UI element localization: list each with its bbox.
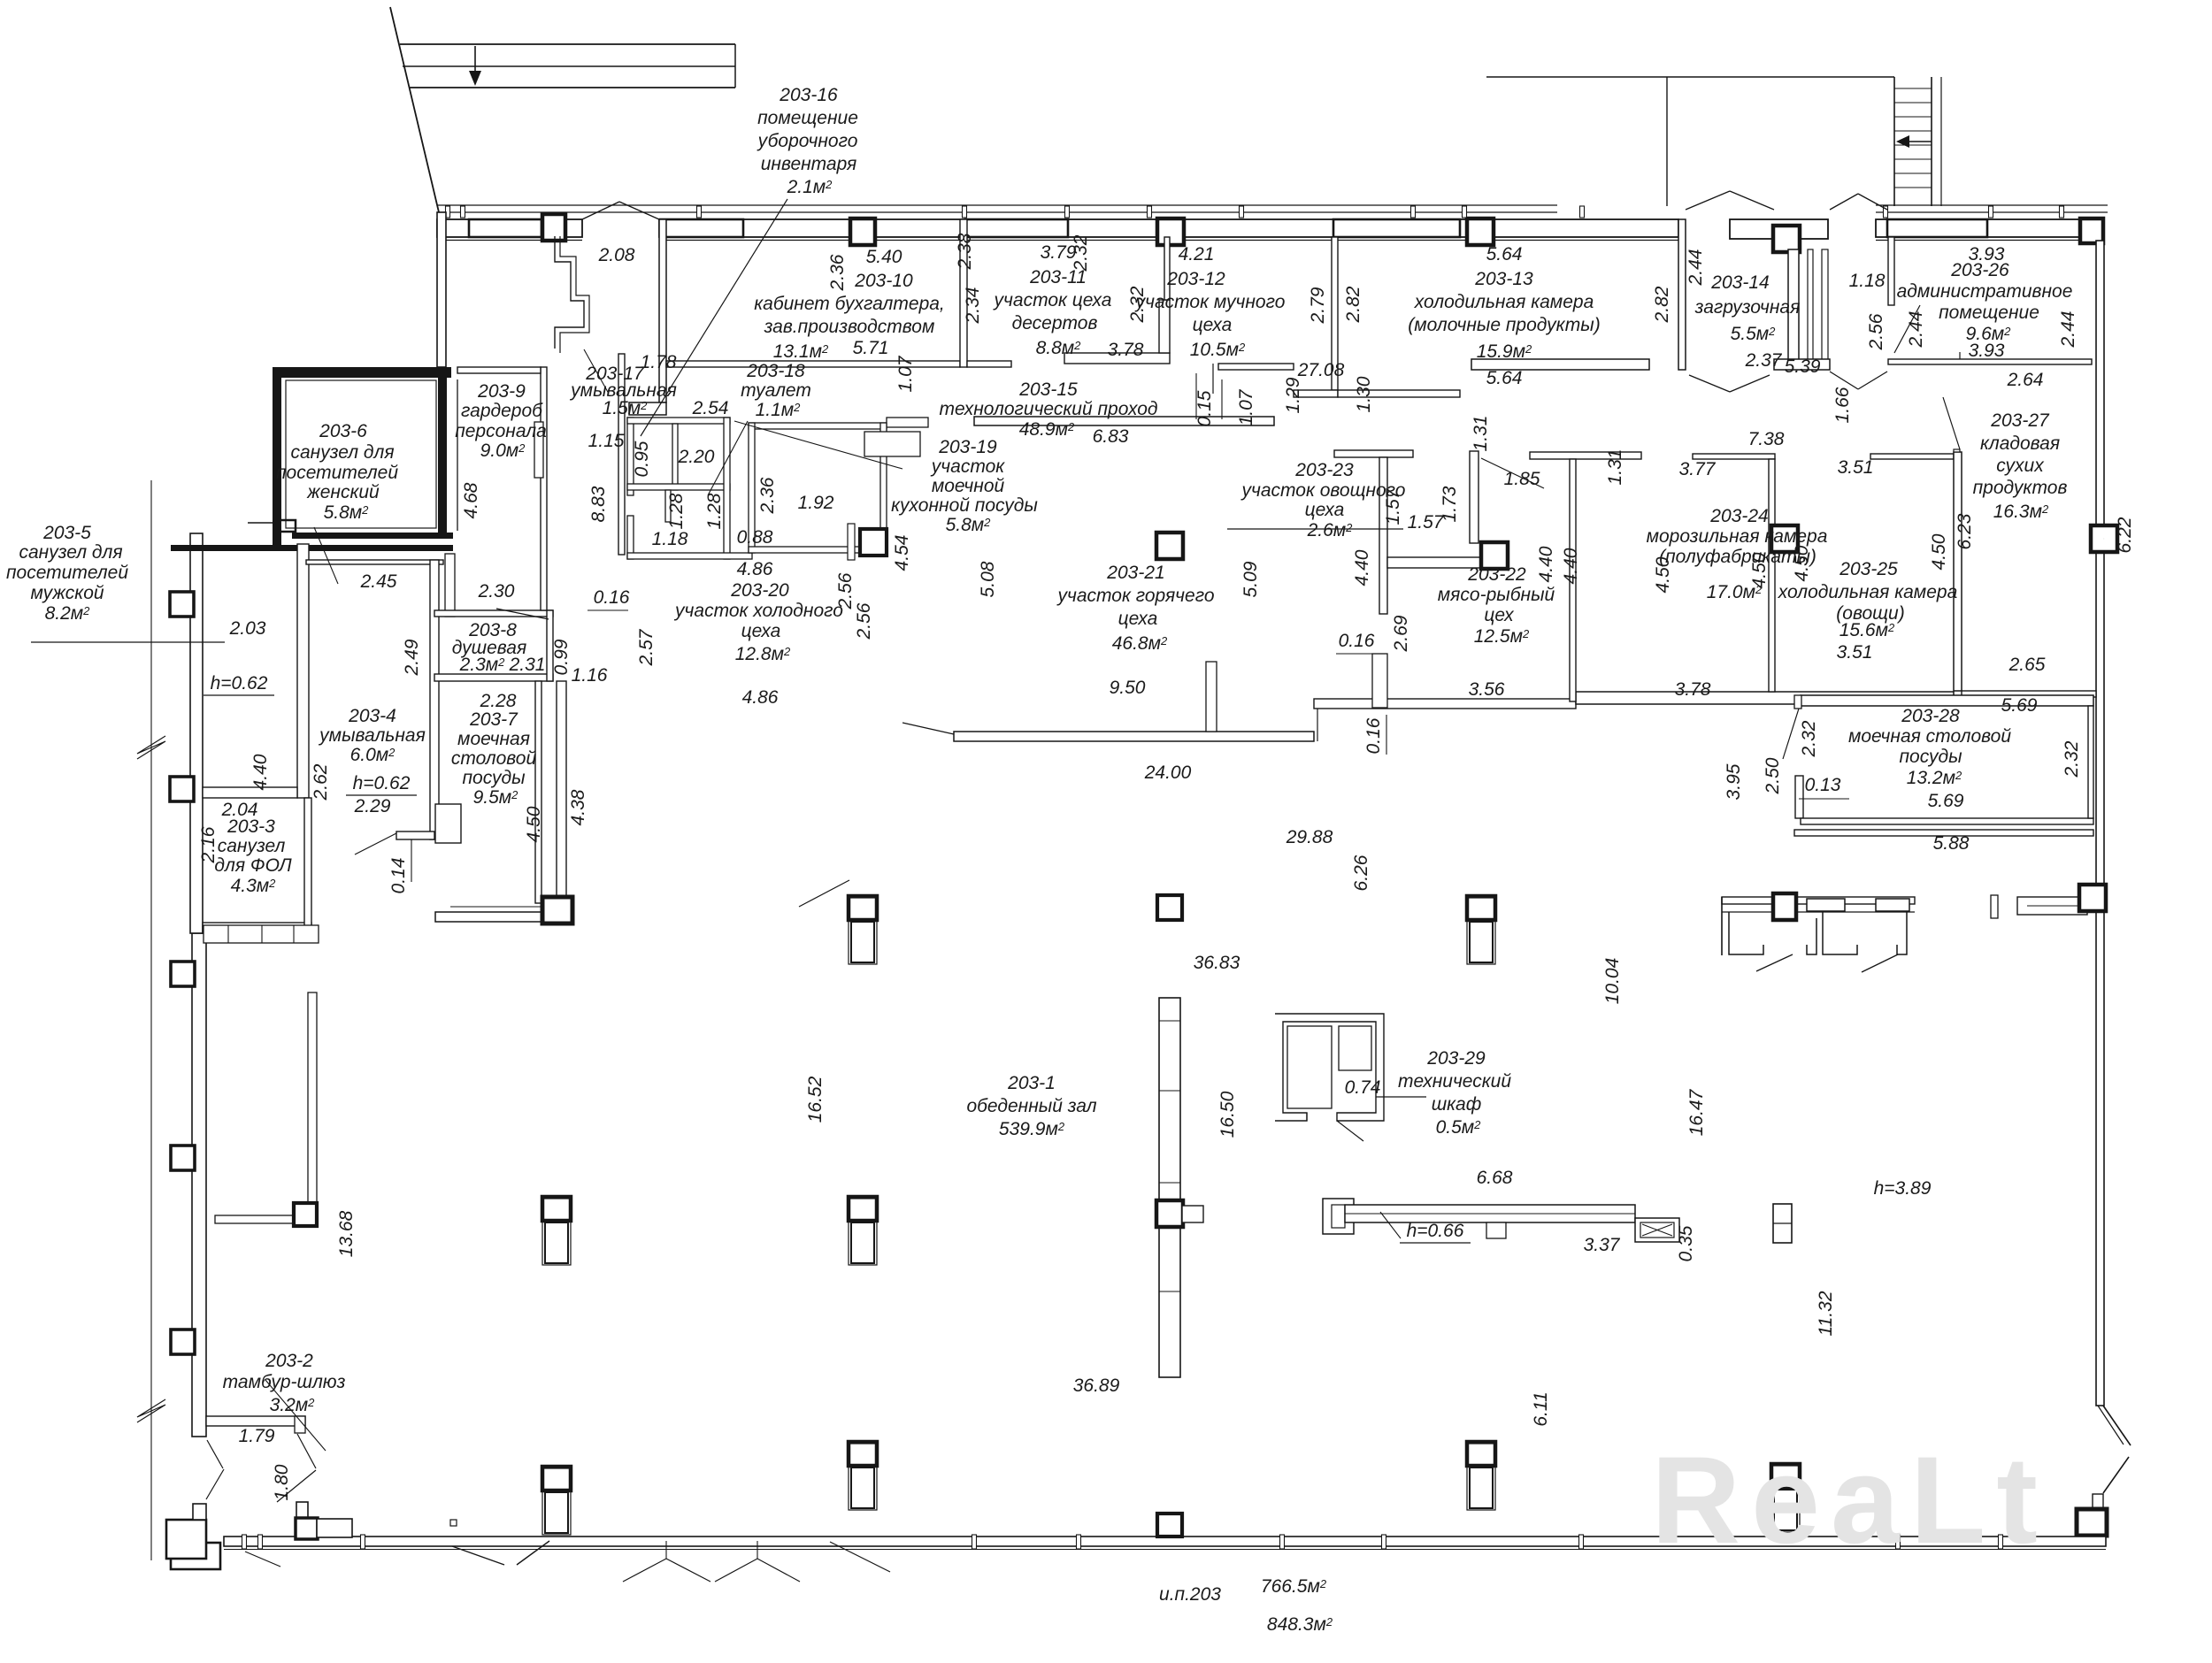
svg-text:3.51: 3.51	[1837, 642, 1873, 663]
svg-text:1.66: 1.66	[1832, 387, 1853, 423]
window mullion tick	[1884, 206, 1888, 218]
column central screen	[1156, 1200, 1183, 1227]
svg-text:0.15: 0.15	[1194, 390, 1215, 426]
window mullion tick	[1148, 206, 1152, 218]
notch 203-26	[1959, 352, 1961, 359]
svg-text:обеденный зал: обеденный зал	[966, 1096, 1096, 1116]
svg-text:2.38: 2.38	[955, 233, 975, 270]
svg-text:16.50: 16.50	[1217, 1091, 1238, 1138]
svg-text:санузел для: санузел для	[19, 542, 122, 563]
window mullion tick	[1065, 206, 1070, 218]
door swing 203-26	[1894, 305, 1920, 353]
svg-text:7.38: 7.38	[1748, 429, 1785, 449]
203-28 right wall	[2088, 706, 2093, 818]
cluster bottom wall	[627, 553, 752, 559]
203-6 bottom thick wall	[292, 533, 453, 539]
svg-text:16.3м2: 16.3м2	[1993, 502, 2049, 522]
svg-text:тамбур-шлюз: тамбур-шлюз	[223, 1372, 346, 1392]
svg-text:10.5м2: 10.5м2	[1190, 340, 1246, 360]
svg-text:2.37: 2.37	[1745, 350, 1783, 371]
svg-text:2.44: 2.44	[1686, 249, 1706, 287]
203-19 bottom wall	[749, 547, 887, 553]
svg-text:посуды: посуды	[1899, 747, 1962, 767]
door swing 203-28	[1783, 709, 1799, 759]
svg-text:мужской: мужской	[30, 583, 104, 603]
svg-text:5.69: 5.69	[1928, 791, 1964, 811]
svg-text:2.32: 2.32	[2062, 740, 2082, 778]
svg-text:2.30: 2.30	[478, 581, 515, 602]
svg-text:загрузочная: загрузочная	[1694, 297, 1801, 318]
left exterior wall lower	[192, 933, 206, 1437]
window W1b	[660, 219, 743, 237]
svg-text:2.82: 2.82	[1652, 286, 1672, 323]
bay shaft wall b	[1822, 249, 1828, 364]
svg-text:0.16: 0.16	[594, 587, 630, 608]
inner line hall NW	[450, 906, 544, 908]
svg-text:6.83: 6.83	[1093, 426, 1129, 447]
stair tread	[1894, 144, 1932, 146]
svg-text:0.16: 0.16	[1363, 717, 1384, 754]
svg-text:0.14: 0.14	[388, 858, 409, 894]
svg-text:2.08: 2.08	[598, 245, 635, 265]
svg-text:2.54: 2.54	[692, 398, 729, 418]
buffet left edge	[1721, 897, 1723, 955]
svg-text:моечная столовой: моечная столовой	[1848, 726, 2011, 747]
svg-text:203-26: 203-26	[1950, 260, 2009, 280]
svg-text:3.51: 3.51	[1838, 457, 1874, 478]
svg-text:0.95: 0.95	[632, 441, 652, 477]
svg-text:h=0.66: h=0.66	[1407, 1221, 1464, 1241]
svg-text:h=3.89: h=3.89	[1874, 1178, 1932, 1199]
column hall NW	[542, 897, 572, 923]
svg-text:203-6: 203-6	[319, 421, 367, 441]
leader 203-18	[708, 421, 748, 495]
left edge wall x310	[273, 378, 281, 546]
203-11 bottom wall (3.78)	[1064, 353, 1170, 364]
buffet top band	[1722, 897, 1915, 904]
svg-text:203-1: 203-1	[1007, 1073, 1056, 1093]
svg-text:2.56: 2.56	[854, 602, 874, 640]
column 203-22 NW	[1481, 542, 1508, 569]
outer line above loading bay	[1486, 76, 1894, 78]
window mullion tick	[1463, 206, 1467, 218]
svg-text:1.57: 1.57	[1383, 487, 1403, 525]
svg-text:4.50: 4.50	[1929, 533, 1949, 570]
chamfer corner bottom-right	[2103, 1406, 2131, 1445]
svg-text:участок: участок	[930, 456, 1005, 477]
svg-text:2.45: 2.45	[360, 571, 397, 592]
203-8 right wall	[547, 610, 553, 681]
door assembly hall r3c0	[542, 1467, 571, 1535]
bottom band tick	[1579, 1535, 1584, 1549]
svg-text:16.52: 16.52	[805, 1076, 826, 1123]
bottom band tick	[972, 1535, 977, 1549]
tiny marker	[450, 1520, 457, 1526]
svg-text:203-15: 203-15	[1018, 379, 1078, 400]
bottom band tick	[258, 1535, 263, 1549]
svg-text:3.95: 3.95	[1724, 763, 1744, 800]
203-11 bottom riser	[1159, 300, 1170, 353]
svg-text:9.50: 9.50	[1110, 678, 1146, 698]
svg-text:4.40: 4.40	[1536, 546, 1556, 582]
bay bottom wall	[1774, 359, 1830, 370]
balustrade vertical h=0.92	[308, 992, 317, 1215]
svg-text:2.31: 2.31	[509, 655, 546, 675]
window W4	[1887, 219, 1987, 237]
svg-text:шкаф: шкаф	[1432, 1094, 1482, 1115]
svg-text:1.28: 1.28	[666, 493, 687, 529]
column 203-19 SE	[860, 529, 887, 556]
buffet band inner line	[1722, 911, 1915, 913]
wall 203-22|24	[1570, 459, 1576, 701]
svg-text:морозильная камера: морозильная камера	[1647, 526, 1828, 547]
column top E (bay)	[1773, 226, 1800, 252]
svg-text:203-14: 203-14	[1710, 272, 1769, 293]
svg-text:продуктов: продуктов	[1973, 478, 2068, 498]
door leaf 203-4	[355, 833, 396, 854]
203-9 right wall	[541, 367, 547, 610]
door assembly hall r2c1	[849, 1197, 877, 1265]
annex top wall line	[171, 545, 453, 551]
chamfer foot rect	[2093, 1494, 2103, 1509]
hall NW corner wall	[435, 912, 568, 922]
buffet window box a	[1807, 899, 1845, 911]
leader 1.85	[1481, 458, 1544, 488]
203-10 bottom wall	[666, 361, 960, 367]
wall y406 under bay left	[1471, 359, 1649, 370]
203-10 left wall foot	[629, 402, 666, 415]
203-19 right wall	[880, 423, 887, 553]
svg-text:2.64: 2.64	[2007, 370, 2044, 390]
window W1	[469, 219, 541, 237]
balustrade horizontal	[215, 1215, 296, 1223]
window mullion tick	[697, 206, 702, 218]
wall 203-5|203-4	[297, 544, 309, 798]
svg-text:административное: административное	[1897, 281, 2073, 302]
vestibule pier white	[296, 1502, 308, 1520]
203-28 left wall lower	[1795, 776, 1803, 818]
right exterior wall	[2096, 241, 2104, 1406]
svg-text:2.36: 2.36	[757, 477, 778, 514]
top wall outer line 2	[437, 211, 1557, 213]
203-10 left wall	[659, 219, 666, 402]
svg-text:санузел для: санузел для	[290, 442, 394, 463]
svg-text:2.82: 2.82	[1343, 286, 1363, 323]
svg-text:цех: цех	[1484, 605, 1515, 625]
svg-text:кабинет бухгалтера,: кабинет бухгалтера,	[754, 294, 945, 314]
bottom band tick	[1896, 1535, 1901, 1549]
svg-text:0.99: 0.99	[551, 639, 572, 675]
svg-text:помещение: помещение	[757, 108, 858, 128]
svg-text:мясо-рыбный: мясо-рыбный	[1438, 585, 1555, 605]
leader h=0.66	[1380, 1212, 1401, 1238]
L wall inner	[2027, 905, 2080, 907]
counter left block	[1323, 1199, 1354, 1234]
svg-text:зав.производством: зав.производством	[764, 317, 935, 337]
axis diag b	[245, 1552, 280, 1567]
svg-text:участок холодного: участок холодного	[673, 601, 843, 621]
jog wall inner	[560, 236, 589, 353]
svg-text:4.54: 4.54	[892, 535, 912, 571]
svg-text:h=0.62: h=0.62	[211, 673, 268, 694]
svg-text:6.26: 6.26	[1351, 854, 1371, 891]
stub below	[665, 490, 671, 522]
buffet recess R left	[1823, 912, 1857, 954]
stair shaft	[1893, 77, 1895, 206]
svg-text:4.40: 4.40	[1561, 548, 1581, 584]
svg-text:2.49: 2.49	[402, 639, 422, 676]
svg-text:цеха: цеха	[1118, 609, 1158, 629]
annex wall pier	[170, 592, 194, 617]
svg-text:5.64: 5.64	[1486, 368, 1523, 388]
203-27 walls	[1954, 449, 1960, 452]
svg-text:2.65: 2.65	[2008, 655, 2046, 675]
stub 0.15	[1212, 364, 1214, 394]
small room mid wall	[627, 484, 730, 490]
svg-text:203-29: 203-29	[1426, 1048, 1486, 1069]
svg-text:5.09: 5.09	[1240, 561, 1261, 597]
svg-text:4.86: 4.86	[742, 687, 779, 708]
svg-text:11.32: 11.32	[1816, 1291, 1836, 1336]
svg-text:203-13: 203-13	[1474, 269, 1533, 289]
column	[2103, 538, 2105, 540]
svg-text:(молочные продукты): (молочные продукты)	[1408, 315, 1600, 335]
bottom band tick	[1382, 1535, 1386, 1549]
diagonal site line	[390, 7, 439, 212]
entrance step block	[171, 1543, 220, 1569]
203-29 outer wall	[1275, 1014, 1384, 1121]
svg-text:2.44: 2.44	[2058, 311, 2078, 349]
window mullion tick	[1580, 206, 1585, 218]
svg-text:4.68: 4.68	[461, 482, 481, 518]
svg-text:2.44: 2.44	[1906, 311, 1926, 349]
axis line	[150, 480, 152, 1560]
svg-text:посуды: посуды	[462, 768, 526, 788]
svg-text:5.39: 5.39	[1785, 356, 1821, 377]
counter right end inner	[1640, 1222, 1674, 1238]
svg-text:2.20: 2.20	[678, 447, 715, 467]
stub 0.13	[1794, 695, 1801, 709]
svg-text:гардероб: гардероб	[461, 401, 543, 421]
svg-text:помещение: помещение	[1939, 303, 2039, 323]
svg-text:4.50: 4.50	[1792, 545, 1812, 581]
svg-text:36.83: 36.83	[1194, 953, 1240, 973]
loading area left edge	[1666, 77, 1668, 206]
column bottom-right corner	[2077, 1509, 2107, 1536]
svg-text:203-2: 203-2	[265, 1351, 313, 1371]
small box right of screen col	[1182, 1206, 1203, 1222]
stair tread	[1894, 187, 1932, 188]
svg-text:5.64: 5.64	[1486, 244, 1523, 264]
svg-text:для ФОЛ: для ФОЛ	[214, 855, 292, 876]
svg-text:столовой: столовой	[451, 748, 537, 769]
wall right of 203-7	[535, 681, 541, 903]
svg-text:0.74: 0.74	[1345, 1077, 1381, 1098]
annex wall pier	[170, 777, 194, 801]
main left wall upper thin part	[437, 212, 446, 367]
canopy right edge	[734, 44, 736, 88]
203-23 lower wall	[1387, 557, 1482, 568]
203-6 inner face	[286, 380, 436, 528]
entrance corner block	[166, 1520, 206, 1559]
central screen	[1159, 998, 1180, 1377]
svg-text:1.28: 1.28	[704, 493, 725, 529]
leader 203-6	[314, 527, 338, 584]
column 203-21	[1156, 533, 1183, 559]
203-19 top wall	[749, 423, 887, 429]
door assembly hall r1c1	[849, 896, 877, 964]
wall 203-10|203-11	[960, 219, 967, 367]
svg-text:203-22: 203-22	[1467, 564, 1526, 585]
corridor wall x700 upper	[618, 354, 625, 555]
column top B	[850, 218, 875, 245]
svg-text:13.68: 13.68	[336, 1210, 357, 1257]
wall right of cluster	[724, 418, 730, 559]
buffet door leaf a	[1756, 954, 1793, 971]
window W3	[1333, 219, 1460, 237]
svg-text:2.32: 2.32	[1799, 720, 1819, 757]
svg-text:цеха: цеха	[1305, 500, 1345, 520]
svg-text:539.9м2: 539.9м2	[999, 1119, 1065, 1139]
top wall band seg2	[659, 219, 1678, 237]
wall 203-11|203-12	[1164, 237, 1170, 300]
svg-text:цеха: цеха	[1193, 315, 1233, 335]
svg-text:2.28: 2.28	[480, 691, 517, 711]
svg-text:2.32: 2.32	[1071, 234, 1091, 272]
svg-text:203-5: 203-5	[42, 523, 91, 543]
203-27 bottom wall	[1962, 691, 2096, 697]
svg-text:0.16: 0.16	[1339, 631, 1375, 651]
svg-text:3.93: 3.93	[1969, 341, 2005, 361]
wall 203-16|17	[672, 424, 678, 490]
buffet recess L left	[1729, 912, 1763, 954]
svg-text:1.16: 1.16	[572, 665, 608, 686]
leader 2.54	[734, 421, 902, 469]
svg-text:46.8м2: 46.8м2	[1112, 633, 1168, 654]
bay door swing marks top	[1686, 191, 1730, 210]
buffet door leaf b	[1862, 954, 1898, 972]
svg-text:203-20: 203-20	[730, 580, 789, 601]
svg-text:1.92: 1.92	[798, 493, 834, 513]
svg-text:0.88: 0.88	[737, 527, 773, 548]
ramp arrow	[474, 46, 476, 80]
leader 203-17	[584, 349, 609, 394]
svg-text:умывальная: умывальная	[318, 725, 426, 746]
svg-text:2.36: 2.36	[827, 254, 848, 291]
column right wall B	[2079, 885, 2106, 911]
door swing 203-27	[1943, 397, 1960, 449]
L wall piece	[2017, 897, 2087, 915]
axis break 1	[137, 736, 165, 759]
bay door swing marks bottom	[1689, 375, 1730, 392]
svg-text:женский: женский	[306, 482, 380, 502]
svg-text:цеха: цеха	[741, 621, 781, 641]
pier at 203-6 door	[274, 520, 296, 532]
entrance dip diag b	[517, 1541, 549, 1565]
wall 203-24|25	[1769, 459, 1775, 692]
shaft wall right of 2.45 room	[445, 554, 455, 617]
203-22/24 top wall a	[1530, 452, 1641, 459]
wall 203-4 bottom stub	[396, 831, 434, 839]
203-28 bottom wall	[1801, 818, 2093, 824]
buffet window box b	[1876, 899, 1909, 911]
fixture in 203-19	[864, 432, 920, 456]
svg-text:1.31: 1.31	[1605, 449, 1625, 486]
wall below 203-28	[1794, 830, 2093, 836]
leader 203-16	[641, 199, 787, 436]
annex left wall	[190, 533, 203, 933]
leader 203-29	[1376, 1096, 1426, 1098]
svg-text:1.30: 1.30	[1354, 376, 1374, 412]
column 24|25 wall	[1771, 525, 1798, 552]
pier above corner block	[193, 1504, 206, 1520]
svg-text:3.77: 3.77	[1679, 459, 1717, 479]
counter left block inner	[1332, 1205, 1345, 1228]
entrance door marks top	[582, 202, 619, 219]
svg-text:2.50: 2.50	[1763, 757, 1783, 794]
wall top of 203-4 (2.45)	[306, 560, 443, 564]
stub under 203-11 left	[967, 361, 1011, 367]
stair tread	[1894, 102, 1932, 103]
door assembly hall r3c3	[1467, 1442, 1495, 1510]
svg-text:203-19: 203-19	[938, 437, 997, 457]
svg-text:203-27: 203-27	[1990, 410, 2050, 431]
svg-text:12.8м2: 12.8м2	[735, 644, 791, 664]
svg-text:h=0.62: h=0.62	[353, 773, 411, 793]
svg-text:2.03: 2.03	[229, 618, 266, 639]
main thick left wall	[438, 367, 447, 533]
svg-text:5.69: 5.69	[2001, 695, 2038, 716]
svg-text:16.47: 16.47	[1686, 1088, 1707, 1136]
svg-text:203-9: 203-9	[477, 381, 526, 402]
svg-text:участок горячего: участок горячего	[1056, 586, 1214, 606]
svg-text:5.88: 5.88	[1933, 833, 1970, 854]
stair tread	[1894, 172, 1932, 174]
window mullion tick	[1411, 206, 1416, 218]
svg-text:ReaLt: ReaLt	[1651, 1430, 2048, 1569]
svg-text:6.23: 6.23	[1955, 513, 1975, 549]
stair arrow	[1901, 141, 1932, 142]
bottom wall band	[224, 1537, 2106, 1546]
door assembly hall r3c1	[849, 1442, 877, 1510]
svg-text:4.50: 4.50	[1653, 556, 1673, 593]
svg-text:766.5м2: 766.5м2	[1261, 1576, 1327, 1597]
svg-text:посетителей: посетителей	[6, 563, 128, 583]
stair tread	[1894, 158, 1932, 160]
left wall pier	[171, 962, 195, 986]
tick wall	[1991, 895, 1998, 918]
svg-text:1.15: 1.15	[588, 431, 625, 451]
bottom band tick	[361, 1535, 365, 1549]
svg-text:2.79: 2.79	[1308, 287, 1328, 324]
203-19 left wall	[749, 423, 755, 553]
svg-text:1.85: 1.85	[1504, 469, 1540, 489]
wall 203-5 bottom	[203, 787, 297, 798]
column top D	[1467, 218, 1494, 245]
jog wall below corner	[555, 236, 584, 349]
svg-text:кухонной посуды: кухонной посуды	[891, 495, 1038, 516]
svg-text:технологический проход: технологический проход	[939, 399, 1157, 419]
203-12 bottom wall	[1218, 364, 1294, 370]
axis diag a	[830, 1542, 890, 1572]
svg-text:203-4: 203-4	[348, 706, 396, 726]
svg-text:уборочного: уборочного	[757, 131, 858, 151]
svg-text:4.38: 4.38	[568, 789, 588, 825]
bay left wall	[1678, 219, 1686, 370]
leader 203-5	[31, 641, 225, 643]
svg-text:моечной: моечной	[932, 476, 1005, 496]
left wall pier	[171, 1146, 195, 1170]
